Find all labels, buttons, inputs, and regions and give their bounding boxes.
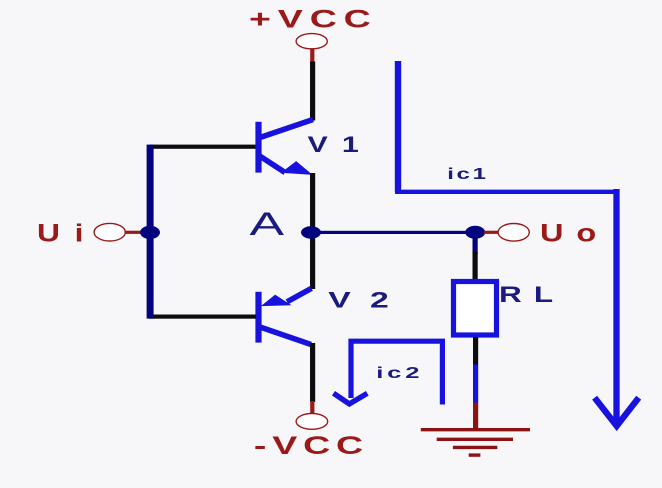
wire V2 base (black horizontal) [149, 315, 256, 319]
resistor RL [454, 282, 497, 336]
terminal +VCC [296, 34, 327, 49]
terminal Ui [94, 223, 125, 241]
svg-text:U i: U i [37, 219, 86, 247]
wire blue segment below RL [473, 365, 478, 404]
node A dot [301, 226, 321, 239]
wire V1 base (black horizontal) [149, 145, 256, 149]
wire input loop vertical (navy) [147, 145, 154, 319]
svg-text:V 2: V 2 [328, 288, 393, 313]
terminal Uo [498, 224, 529, 242]
wire node A to output node (navy) [311, 231, 475, 234]
svg-text:ic1: ic1 [447, 166, 488, 183]
wire output node to RL (black) [473, 252, 478, 281]
svg-text:-VCC: -VCC [254, 431, 369, 459]
wire Ui to input node (dark red) [125, 231, 145, 234]
svg-text:R L: R L [499, 281, 555, 306]
wire RL to ground (black segment) [473, 337, 478, 365]
current path ic2 [334, 341, 443, 404]
ground [421, 430, 530, 455]
svg-text:+VCC: +VCC [249, 5, 378, 33]
wire -VCC stub [310, 401, 314, 414]
wire node A to V2 emitter [310, 232, 315, 289]
transistor V1 [255, 120, 313, 175]
svg-text:U o: U o [540, 220, 598, 248]
svg-text:V 1: V 1 [308, 132, 362, 157]
transistor V2 [255, 288, 311, 344]
output node dot [465, 226, 485, 239]
wire output node stub (navy) [473, 232, 478, 254]
svg-text:ic2: ic2 [376, 364, 423, 382]
wire V1 emitter to node A [310, 173, 315, 234]
svg-text:A: A [250, 207, 285, 243]
wire dark red segment into ground [473, 403, 478, 431]
current path ic1 [395, 61, 639, 426]
terminal -VCC [296, 414, 328, 430]
wire +VCC to V1 collector [310, 62, 315, 121]
wire output node to Uo terminal (dark red) [484, 231, 499, 234]
wire +VCC stub [310, 49, 314, 63]
wire V2 collector to -VCC [310, 343, 315, 402]
input node dot [140, 226, 160, 239]
